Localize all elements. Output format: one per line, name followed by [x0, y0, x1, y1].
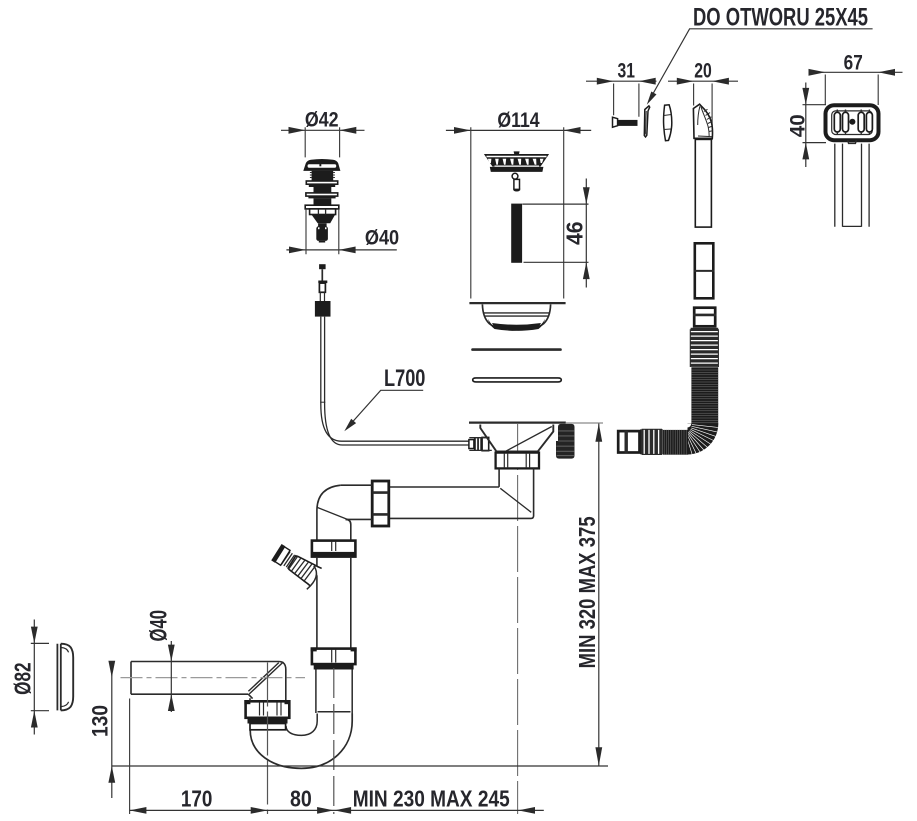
- svg-text:130: 130: [87, 705, 112, 737]
- pop-up knob threaded neck: [312, 171, 334, 182]
- hose loose bellows horizontal: [642, 429, 662, 455]
- overflow slot ticks: [837, 110, 869, 135]
- trap left centerline: [267, 663, 269, 815]
- svg-text:170: 170: [181, 785, 213, 811]
- dimension Ø40 left arrow (knob): [289, 247, 306, 254]
- dimension Ø40 line (knob): [286, 249, 396, 251]
- outlet pipe bottom edge: [131, 694, 253, 701]
- cable block: [315, 301, 331, 317]
- svg-text:MIN 230 MAX 245: MIN 230 MAX 245: [353, 785, 510, 811]
- dishwasher spout: [271, 543, 322, 586]
- pop-up knob collar: [310, 209, 336, 215]
- drain flange top line thin extension: [566, 422, 603, 424]
- dimension 46 top arrow: [583, 187, 590, 204]
- drain cap side view double wall: [57, 644, 60, 711]
- pop-up knob flange 2: [306, 193, 338, 196]
- cable upper fitting: [318, 281, 327, 284]
- svg-text:L700: L700: [384, 365, 425, 392]
- left elbow turning down: [317, 485, 351, 541]
- pop-up knob taper: [311, 215, 335, 224]
- pop-up knob tip nut: [316, 226, 328, 241]
- dimension 40 top arrow: [802, 88, 809, 105]
- dimension 67 left arrow: [809, 69, 826, 76]
- sink flange bowl bottom band: [488, 319, 545, 331]
- trap inlet nut (nut 2): [312, 649, 356, 665]
- dimension 31 right arrow: [639, 78, 656, 85]
- sink flange bowl: [482, 304, 550, 328]
- cable sheath vertical and bend: [321, 317, 470, 442]
- compression nut on horizontal pipe: [372, 481, 389, 526]
- outlet pipe top edge: [131, 662, 286, 701]
- trap outlet collar: [250, 724, 286, 730]
- dimension 40 bottom arrow: [802, 143, 809, 160]
- lens spacer: [664, 105, 672, 141]
- dimension Ø40 extension lines (knob): [306, 210, 339, 255]
- overflow square tube front: [835, 144, 869, 227]
- svg-text:20: 20: [694, 59, 712, 83]
- dimension Ø42 left arrow: [289, 127, 306, 134]
- hose loose bellows vertical: [690, 329, 718, 367]
- overflow elbow fitting: [693, 104, 712, 138]
- dimension 46 line: [585, 179, 587, 288]
- overflow slots left pair: [834, 112, 872, 132]
- trap U-bend inner: [286, 714, 317, 736]
- dimension 31 left arrow: [597, 78, 614, 85]
- dimension Ø82 bottom arrow: [31, 711, 38, 728]
- dimension 67 line: [809, 71, 903, 73]
- trap U-bend outer: [250, 714, 352, 769]
- hose dense vertical section: [691, 367, 718, 424]
- dimension Ø114 extension lines: [471, 127, 564, 298]
- dimension 130 line: [111, 661, 113, 798]
- bottom dim arrow at right end: [518, 807, 535, 814]
- dimension Ø42 line: [281, 129, 365, 131]
- hose dense horizontal section: [663, 430, 688, 455]
- vertical pipe walls: [317, 557, 351, 649]
- dimension Ø40 pipe top arrow: [168, 645, 175, 662]
- overflow down tube (side): [695, 139, 711, 227]
- dimension 20 right arrow: [712, 78, 729, 85]
- strainer stem ring: [512, 173, 518, 179]
- outlet pipe miter seams: [248, 662, 283, 694]
- dimension 67 right arrow: [878, 69, 895, 76]
- svg-text:MIN 320 MAX 375: MIN 320 MAX 375: [574, 516, 600, 668]
- svg-text:67: 67: [844, 51, 863, 75]
- cable joint tick: [320, 401, 325, 403]
- wedge sliver: [644, 106, 649, 137]
- dimension 40 ticks (overflow): [803, 105, 827, 143]
- outlet pipe end cap: [130, 662, 132, 695]
- L700 leader arrow: [344, 419, 356, 431]
- dimension Ø42 extension lines: [305, 127, 339, 157]
- svg-text:Ø114: Ø114: [497, 108, 539, 132]
- hose adapter segment: [695, 243, 714, 298]
- dimension Ø82 top arrow: [31, 627, 38, 644]
- horizontal pipe upper (right of nut): [390, 487, 531, 518]
- trap right centerline: [333, 668, 335, 814]
- MIN320 top arrow: [595, 423, 602, 442]
- pin rod (46): [511, 204, 522, 263]
- dimension 130 bottom arrow: [108, 766, 115, 783]
- L700 leader line: [348, 390, 424, 427]
- hose end cuff: [618, 431, 639, 452]
- dimension MIN 320 MAX 375 line: [598, 424, 600, 766]
- dimension Ø82 line: [33, 620, 35, 735]
- dimension Ø42 right arrow: [340, 127, 357, 134]
- dimension 46 ticks: [522, 204, 588, 262]
- dimension 40 line (overflow): [805, 83, 807, 168]
- drain body cone: [480, 425, 553, 452]
- DO OTWORU underline and leader: [650, 29, 873, 99]
- drain slip nut: [496, 453, 539, 469]
- pop-up knob stem: [318, 223, 327, 226]
- sink flange line: [469, 302, 565, 304]
- trap outlet nut (nut 3): [246, 701, 290, 718]
- svg-text:Ø40: Ø40: [146, 610, 173, 642]
- svg-text:31: 31: [618, 59, 635, 83]
- MIN320 bottom arrow: [595, 747, 602, 766]
- dimension Ø40 right arrow (knob): [339, 247, 356, 254]
- dimension Ø114 left arrow: [454, 127, 471, 134]
- dimension 20 extension lines: [694, 84, 713, 141]
- dimension 67 extension lines: [825, 75, 878, 106]
- drain cap dome: [61, 644, 73, 711]
- dimension 31 line: [586, 80, 657, 82]
- gasket thin: [473, 348, 561, 351]
- svg-text:46: 46: [561, 221, 587, 245]
- dimension 31 extension lines: [614, 84, 639, 117]
- overflow cover bottom tab: [848, 140, 857, 143]
- hose elbow (black quarter bend): [688, 424, 719, 455]
- bottom dim arrow at 170 right: [251, 807, 268, 814]
- trap inlet tube: [316, 670, 352, 715]
- dimension 20 left arrow: [677, 78, 694, 85]
- pop-up knob flange 1: [306, 181, 337, 184]
- pop-up knob flange 3: [305, 205, 339, 209]
- dimension Ø40 pipe bottom arrow: [168, 694, 175, 711]
- dimension 46 bottom arrow: [583, 262, 590, 279]
- bottom dimension line: [130, 809, 544, 811]
- extension line pipe end: [129, 699, 131, 815]
- drain knurled knob: [556, 424, 575, 459]
- gasket thick: [473, 378, 562, 382]
- svg-text:80: 80: [290, 785, 312, 811]
- dimension Ø82 ticks: [31, 643, 49, 710]
- cable top tee: [319, 264, 326, 269]
- pipe axis dash-dot: [121, 677, 306, 679]
- svg-text:Ø40: Ø40: [365, 226, 399, 250]
- svg-text:Ø42: Ø42: [305, 108, 339, 132]
- DO OTWORU leader arrow: [647, 92, 657, 105]
- strainer basket: [484, 154, 549, 167]
- dimension 20 line: [668, 80, 738, 82]
- drain tailpipe walls: [499, 469, 533, 519]
- bottom dim arrow at 170 left: [130, 807, 147, 814]
- horizontal pipe left of nut: [341, 485, 372, 519]
- dimension Ø114 line: [446, 129, 591, 131]
- strainer stem: [514, 179, 520, 190]
- hose top cuff: [694, 308, 715, 327]
- cable end connector: [469, 440, 474, 449]
- dimension 130 top arrow: [108, 661, 115, 678]
- baseline at trap bottom: [112, 765, 608, 767]
- right elbow seam: [500, 488, 531, 512]
- drain body seam diagonal: [506, 427, 552, 452]
- svg-text:DO OTWORU 25X45: DO OTWORU 25X45: [693, 4, 868, 32]
- drain body left stub: [469, 438, 492, 451]
- dimension Ø114 right arrow: [564, 127, 581, 134]
- svg-text:Ø82: Ø82: [10, 663, 36, 695]
- cable wire to block: [320, 292, 324, 301]
- pop-up knob cap: [303, 159, 340, 171]
- screw shaft: [618, 120, 638, 126]
- overflow center pin: [849, 119, 855, 125]
- drain flange top line: [469, 422, 566, 424]
- left elbow seam: [318, 508, 350, 521]
- screw head: [613, 117, 618, 127]
- bottom dim arrows at 80 right (pair): [317, 807, 334, 814]
- overflow front cover inner line: [832, 111, 873, 135]
- overflow front cover outer: [826, 105, 879, 140]
- dimension Ø40 pipe line: [170, 641, 172, 712]
- drain centerline vertical: [517, 424, 519, 814]
- pipe nut 1: [312, 541, 356, 557]
